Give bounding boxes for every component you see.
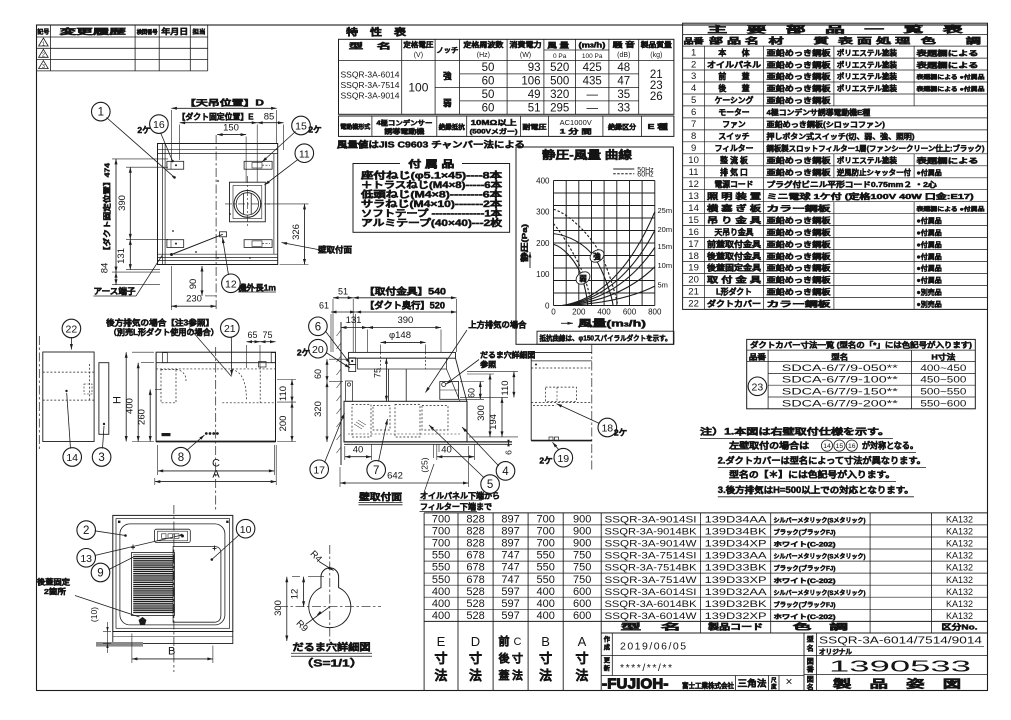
svg-text:2: 2 [83, 525, 89, 537]
svg-text:700: 700 [537, 538, 555, 550]
svg-text:51: 51 [528, 103, 541, 115]
svg-text:（S=1/1）: （S=1/1） [300, 657, 364, 670]
balloon 12 [222, 274, 241, 293]
svg-text:597: 597 [501, 610, 519, 622]
balloon 5 [481, 475, 500, 494]
svg-text:33: 33 [617, 103, 630, 115]
svg-text:(25): (25) [420, 457, 430, 472]
svg-text:8: 8 [178, 452, 184, 464]
front centerline [215, 347, 217, 512]
svg-text:亜鉛めっき鋼板: 亜鉛めっき鋼板 [767, 84, 832, 93]
duct throat [387, 369, 389, 401]
chart note [537, 331, 674, 344]
svg-text:E: E [437, 634, 446, 649]
exhaust duct adapter [230, 182, 266, 222]
svg-text:435: 435 [583, 76, 602, 88]
svg-text:図: 図 [807, 675, 814, 684]
svg-text:だるま穴詳細図: だるま穴詳細図 [480, 350, 536, 360]
svg-text:誘導電動機: 誘導電動機 [384, 127, 425, 136]
svg-text:表題欄による: 表題欄による [915, 48, 978, 57]
parts row 16 天吊り金具 [683, 237, 988, 239]
svg-text:678: 678 [466, 562, 484, 574]
svg-text:定格電圧: 定格電圧 [403, 40, 433, 49]
svg-text:SSQR-3A-6014BK: SSQR-3A-6014BK [605, 599, 698, 609]
dim 110 right [467, 371, 518, 373]
svg-text:SSQR-3A-9014W: SSQR-3A-9014W [605, 539, 697, 549]
svg-text:●別売品: ●別売品 [917, 288, 942, 297]
svg-text:法: 法 [469, 668, 482, 683]
balloon 1 [92, 102, 111, 121]
dim 150 [217, 134, 246, 136]
svg-text:三角法: 三角法 [738, 678, 767, 689]
svg-text:新: 新 [604, 665, 611, 673]
svg-text:ホワイト(C-202): ホワイト(C-202) [774, 578, 836, 585]
svg-text:照 明 装 置: 照 明 装 置 [707, 191, 761, 201]
dim 390 [126, 166, 168, 168]
svg-text:3.後方排気はH=500以上での対応となります。: 3.後方排気はH=500以上での対応となります。 [718, 484, 914, 495]
svg-text:法: 法 [512, 668, 523, 682]
hanger bracket top left [167, 161, 184, 169]
rear view feet [549, 437, 553, 441]
svg-text:93: 93 [528, 62, 541, 74]
svg-text:550: 550 [537, 550, 555, 562]
svg-text:15: 15 [295, 121, 307, 133]
balloon 19 [554, 448, 573, 467]
svg-text:変更履歴: 変更履歴 [60, 26, 127, 36]
svg-text:強: 強 [443, 71, 452, 81]
svg-text:1: 1 [98, 107, 104, 119]
svg-text:KA132: KA132 [946, 539, 973, 549]
svg-text:ソフトテープ --------------1本: ソフトテープ --------------1本 [361, 207, 503, 218]
svg-text:後蓋取付金具: 後蓋取付金具 [707, 251, 761, 261]
svg-text:40: 40 [353, 444, 364, 455]
duct cover size table [747, 339, 976, 408]
svg-text:0: 0 [551, 308, 556, 317]
svg-text:4極コンデンサ誘導電動機E種: 4極コンデンサ誘導電動機E種 [767, 108, 871, 117]
balloon 17 [310, 460, 329, 479]
svg-text:尺: 尺 [771, 676, 777, 684]
svg-text:320: 320 [313, 401, 324, 417]
svg-text:シルバーメタリック(Sメタリック): シルバーメタリック(Sメタリック) [774, 589, 866, 597]
parts row 10 整 流 板 [683, 165, 988, 167]
svg-text:50: 50 [482, 89, 495, 101]
svg-text:前 蓋: 前 蓋 [718, 71, 749, 81]
balloon 18 [598, 418, 617, 437]
svg-text:400: 400 [537, 598, 555, 610]
svg-text:騒 音: 騒 音 [611, 40, 634, 49]
svg-text:390: 390 [397, 315, 413, 326]
balloon 23 [748, 377, 767, 396]
svg-text:21: 21 [224, 323, 236, 335]
svg-text:主 要 部 品 一 覧 表: 主 要 部 品 一 覧 表 [708, 23, 965, 34]
svg-text:後蓋固定金具: 後蓋固定金具 [707, 263, 761, 273]
svg-text:1 分 間: 1 分 間 [560, 127, 593, 136]
svg-text:B: B [541, 634, 550, 649]
switch box [155, 529, 191, 542]
svg-text:400: 400 [125, 398, 136, 414]
svg-text:SSQR-3A-9014: SSQR-3A-9014 [341, 92, 400, 101]
svg-text:(dB): (dB) [617, 52, 630, 59]
svg-text:750: 750 [573, 574, 591, 586]
parts row 15 吊 り 金 具 [683, 225, 988, 227]
svg-text:ケーシング: ケーシング [715, 95, 754, 105]
dim 260 [155, 388, 161, 390]
svg-text:亜鉛めっき鋼板: 亜鉛めっき鋼板 [767, 264, 832, 273]
svg-text:14: 14 [823, 443, 831, 450]
dim phi148 [380, 345, 382, 353]
svg-text:22: 22 [66, 324, 78, 336]
svg-text:機外長1m: 機外長1m [238, 283, 276, 293]
svg-text:後: 後 [499, 651, 511, 665]
svg-text:61: 61 [319, 301, 329, 311]
svg-text:900: 900 [573, 514, 591, 526]
svg-text:【天吊位置】D: 【天吊位置】D [184, 97, 264, 107]
svg-text:SSQR-3A-7514: SSQR-3A-7514 [341, 81, 400, 90]
dim 40 right [436, 444, 438, 460]
svg-text:表題欄による: 表題欄による [915, 156, 978, 165]
svg-text:15: 15 [836, 443, 844, 450]
svg-text:828: 828 [466, 526, 484, 538]
parts row 6 モーター [683, 117, 988, 119]
fan curve weak 50Hz [554, 244, 588, 305]
rear bracket keyhole plate [440, 382, 459, 400]
svg-text:400: 400 [432, 598, 450, 610]
svg-text:製品質量: 製品質量 [640, 40, 672, 49]
slanted front panel [456, 358, 467, 401]
svg-text:●付属品: ●付属品 [917, 240, 942, 249]
svg-text:110: 110 [278, 386, 289, 401]
balloon 21 [221, 319, 240, 338]
svg-text:106: 106 [521, 76, 540, 88]
svg-text:●付属品: ●付属品 [917, 216, 942, 225]
parts row 20 取 付 金 具 [683, 285, 988, 287]
svg-text:KA132: KA132 [946, 563, 973, 573]
svg-text:KA132: KA132 [946, 587, 973, 597]
svg-text:鋼板製スロットフィルター1層(ファンシークリーン仕上:ブラッ: 鋼板製スロットフィルター1層(ファンシークリーン仕上:ブラック) [765, 144, 985, 153]
svg-text:製品コード: 製品コード [707, 621, 763, 631]
svg-text:亜鉛めっき鋼板: 亜鉛めっき鋼板 [767, 48, 832, 57]
svg-text:検図番号: 検図番号 [137, 28, 158, 36]
parts row 11 排 気 口 [683, 177, 988, 179]
svg-text:天吊り金具: 天吊り金具 [715, 227, 754, 237]
svg-text:2.ダクトカバーは型名によって寸法が異なります。: 2.ダクトカバーは型名によって寸法が異なります。 [718, 455, 926, 466]
balloon 15 [292, 116, 311, 135]
svg-text:4極コンデンサー: 4極コンデンサー [376, 118, 432, 127]
svg-text:828: 828 [466, 514, 484, 526]
svg-text:SDCA-6/7/9-100**: SDCA-6/7/9-100** [782, 375, 899, 385]
dim B [131, 634, 133, 664]
svg-text:整 流 板: 整 流 板 [720, 155, 748, 165]
svg-text:特 性 表: 特 性 表 [346, 27, 407, 39]
svg-text:弱: 弱 [579, 273, 587, 283]
svg-text:電動機形式: 電動機形式 [340, 123, 371, 131]
svg-text:22: 22 [688, 299, 699, 310]
svg-text:亜鉛めっき鋼板: 亜鉛めっき鋼板 [767, 288, 832, 297]
svg-text:75: 75 [372, 368, 382, 378]
svg-text:抵抗曲線は、φ150スパイラルダクトを示す。: 抵抗曲線は、φ150スパイラルダクトを示す。 [540, 333, 672, 342]
svg-text:500: 500 [550, 76, 569, 88]
balloon 6 [309, 317, 328, 336]
svg-text:11: 11 [689, 167, 699, 178]
filter [132, 553, 175, 616]
svg-text:16: 16 [153, 119, 165, 131]
svg-text:カラー鋼板: カラー鋼板 [767, 204, 832, 213]
svg-text:(V): (V) [414, 52, 423, 59]
svg-text:47: 47 [617, 76, 630, 88]
svg-text:名: 名 [807, 683, 814, 692]
duct damper [243, 194, 245, 215]
svg-text:10MΩ以上: 10MΩ以上 [471, 118, 517, 127]
svg-text:アルミテープ(40×40)---2枚: アルミテープ(40×40)---2枚 [361, 217, 503, 228]
svg-text:KA132: KA132 [946, 599, 973, 609]
svg-text:吊 り 金 具: 吊 り 金 具 [707, 215, 761, 225]
svg-text:18: 18 [688, 251, 699, 262]
svg-text:8: 8 [691, 131, 696, 142]
svg-text:横 塞 ぎ 板: 横 塞 ぎ 板 [707, 203, 761, 213]
svg-text:597: 597 [501, 598, 519, 610]
svg-text:326: 326 [291, 224, 302, 240]
balloon 2 [77, 521, 96, 540]
revision triangle 1 [39, 38, 49, 46]
svg-text:200: 200 [278, 416, 289, 432]
svg-text:耐電圧: 耐電圧 [523, 122, 548, 131]
svg-text:139D33BK: 139D33BK [705, 563, 768, 573]
svg-text:後蓋固定: 後蓋固定 [37, 576, 71, 586]
svg-text:150: 150 [223, 123, 239, 134]
bottom view centerline [173, 505, 175, 672]
svg-text:ホワイト(C-202): ホワイト(C-202) [774, 542, 836, 549]
svg-text:SSQR-3A-7514SI: SSQR-3A-7514SI [605, 551, 697, 561]
svg-text:富士工業株式会社: 富士工業株式会社 [682, 681, 734, 690]
svg-text:押しボタン式スイッチ(切、弱、強、照明): 押しボタン式スイッチ(切、弱、強、照明) [767, 132, 916, 141]
svg-text:3: 3 [42, 64, 45, 70]
balloon 14 [63, 448, 82, 467]
svg-text:6: 6 [691, 107, 696, 118]
svg-text:550: 550 [432, 562, 450, 574]
svg-text:●付属品: ●付属品 [917, 252, 942, 261]
svg-text:後 蓋: 後 蓋 [718, 83, 749, 93]
svg-text:17: 17 [313, 464, 325, 476]
svg-text:SSQR-3A-6014: SSQR-3A-6014 [341, 71, 400, 80]
svg-text:壁取付面: 壁取付面 [318, 245, 352, 255]
dim 326 [267, 203, 309, 205]
svg-text:●付属品: ●付属品 [917, 228, 942, 237]
svg-text:9: 9 [97, 568, 103, 580]
svg-text:23: 23 [752, 381, 764, 393]
svg-text:139D32BK: 139D32BK [705, 599, 768, 609]
balloon 11 [295, 144, 314, 163]
svg-text:取 付 金 具: 取 付 金 具 [707, 275, 761, 285]
svg-text:寸: 寸 [469, 651, 482, 666]
side view body [344, 401, 467, 442]
svg-text:****/**/**: ****/**/** [620, 662, 674, 674]
svg-text:18: 18 [601, 423, 613, 435]
svg-text:300: 300 [273, 600, 284, 616]
revision triangle 2 [39, 49, 49, 57]
svg-text:ファン: ファン [722, 120, 746, 129]
parts row 5 ケーシング [683, 105, 988, 107]
svg-text:表 面 処 理: 表 面 処 理 [836, 36, 910, 46]
svg-text:60: 60 [482, 103, 495, 115]
svg-text:600: 600 [573, 598, 591, 610]
front view body [156, 352, 275, 441]
svg-text:21: 21 [688, 287, 699, 298]
svg-text:SSQR-3A-9014SI: SSQR-3A-9014SI [605, 515, 697, 525]
keyhole centerlines [279, 606, 381, 608]
svg-text:597: 597 [501, 586, 519, 598]
svg-text:900: 900 [573, 526, 591, 538]
parts row 3 前 蓋 [683, 81, 988, 83]
svg-text:シルバーメタリック(Sメタリック): シルバーメタリック(Sメタリック) [774, 517, 866, 525]
svg-text:15m: 15m [658, 242, 673, 251]
projection method cell [734, 676, 736, 691]
svg-text:型 名: 型 名 [621, 621, 681, 631]
svg-text:678: 678 [466, 574, 484, 586]
dim 230 [170, 266, 172, 310]
svg-text:B: B [168, 645, 175, 657]
dim 642 [339, 467, 341, 487]
parts row 7 ファン [683, 129, 988, 131]
svg-text:ミニ電球 1ケ付 (定格100V 40W 口金:E17): ミニ電球 1ケ付 (定格100V 40W 口金:E17) [767, 192, 975, 201]
svg-text:678: 678 [466, 550, 484, 562]
svg-text:5: 5 [487, 479, 493, 491]
svg-text:亜鉛めっき鋼板: 亜鉛めっき鋼板 [767, 252, 832, 261]
balloon 20 [309, 339, 328, 358]
svg-text:139D32XP: 139D32XP [705, 611, 767, 621]
svg-text:が対称となる。: が対称となる。 [862, 440, 918, 451]
dim A [154, 478, 156, 485]
svg-text:48: 48 [617, 62, 630, 74]
svg-text:295: 295 [550, 103, 569, 115]
svg-text:131: 131 [116, 248, 127, 264]
svg-text:5: 5 [691, 95, 696, 106]
svg-text:747: 747 [501, 550, 519, 562]
svg-text:SDCA-6/7/9-150**: SDCA-6/7/9-150** [782, 387, 899, 397]
svg-text:ポリエステル塗装: ポリエステル塗装 [837, 84, 898, 93]
svg-text:300: 300 [476, 405, 487, 421]
svg-text:亜鉛めっき鋼板: 亜鉛めっき鋼板 [767, 228, 832, 237]
dim 131 390 side [367, 330, 369, 353]
plan centerline [215, 135, 217, 310]
svg-text:2: 2 [42, 53, 45, 59]
svg-text:400: 400 [432, 586, 450, 598]
parts row 2 オイルパネル [683, 69, 988, 71]
svg-text:座付ねじ(φ5.1×45)----8本: 座付ねじ(φ5.1×45)----8本 [360, 170, 504, 181]
svg-text:1390533: 1390533 [829, 658, 971, 675]
svg-text:亜鉛めっき鋼板: 亜鉛めっき鋼板 [767, 60, 832, 69]
svg-text:2019/06/05: 2019/06/05 [620, 641, 688, 653]
accessories box [353, 164, 510, 233]
svg-text:6: 6 [504, 450, 514, 455]
svg-text:寸: 寸 [539, 651, 552, 666]
svg-text:60Hz: 60Hz [637, 172, 654, 179]
svg-text:スイッチ: スイッチ [718, 132, 749, 141]
dim 320 left [326, 382, 328, 442]
keyhole hole outline [309, 568, 351, 628]
svg-text:10: 10 [688, 155, 699, 166]
balloon 3 [92, 448, 111, 467]
svg-text:2ケ: 2ケ [539, 456, 552, 466]
svg-text:寸: 寸 [575, 651, 588, 666]
svg-text:●別売品: ●別売品 [917, 300, 942, 309]
svg-text:110: 110 [500, 380, 511, 395]
svg-text:ポリエステル塗装: ポリエステル塗装 [837, 72, 898, 81]
dim 194 right [460, 396, 508, 398]
svg-text:7: 7 [691, 119, 696, 130]
svg-text:更: 更 [604, 657, 611, 665]
svg-text:550~600: 550~600 [920, 398, 966, 408]
svg-text:2ケ: 2ケ [137, 125, 150, 135]
switch dots [205, 432, 208, 435]
svg-text:型名: 型名 [831, 351, 848, 361]
svg-text:19: 19 [557, 453, 569, 465]
svg-text:表題欄による ●付属品: 表題欄による ●付属品 [917, 73, 985, 81]
svg-text:700: 700 [432, 526, 450, 538]
x axis label [561, 322, 573, 324]
svg-text:0 Pa: 0 Pa [553, 53, 567, 60]
parts row 9 フィルター [683, 153, 988, 155]
svg-text:528: 528 [466, 598, 484, 610]
dim H [132, 351, 154, 353]
exhaust duct collar [234, 191, 261, 218]
svg-text:4: 4 [691, 83, 696, 94]
chart grid [553, 181, 555, 306]
svg-text:400~450: 400~450 [920, 363, 966, 373]
svg-text:L形ダクト: L形ダクト [716, 287, 752, 297]
parts row 12 電源コード [683, 189, 988, 191]
dim 131 [129, 239, 131, 269]
svg-text:法: 法 [575, 668, 588, 683]
svg-text:ポリエステル塗装: ポリエステル塗装 [837, 156, 898, 165]
svg-text:絶縁抵抗: 絶縁抵抗 [439, 122, 466, 131]
svg-text:20m: 20m [658, 225, 673, 234]
svg-text:風量値はJIS C9603 チャンバー法による: 風量値はJIS C9603 チャンバー法による [337, 140, 525, 150]
dim C [157, 445, 159, 475]
hanger bracket bottom right [244, 240, 272, 248]
svg-text:600: 600 [573, 610, 591, 622]
svg-text:139D32AA: 139D32AA [705, 587, 768, 597]
svg-text:品番: 品番 [749, 351, 767, 361]
dim 60 left [329, 358, 346, 360]
svg-text:60: 60 [467, 388, 477, 398]
svg-text:蓋: 蓋 [499, 668, 510, 682]
parts row 21 L形ダクト [683, 296, 988, 298]
corner screws [118, 521, 120, 523]
dim 61 520 [330, 314, 332, 352]
svg-text:後方排気の場合【注3参照】: 後方排気の場合【注3参照】 [106, 317, 214, 327]
svg-text:材 質: 材 質 [769, 36, 829, 46]
svg-text:139D34XP: 139D34XP [705, 539, 767, 549]
svg-text:×: × [785, 675, 792, 689]
svg-text:828: 828 [466, 538, 484, 550]
svg-text:12: 12 [688, 179, 699, 190]
svg-text:前蓋取付金具: 前蓋取付金具 [707, 239, 761, 249]
svg-text:弱: 弱 [443, 98, 452, 108]
svg-text:ブラック(ブラックFJ): ブラック(ブラックFJ) [774, 529, 836, 537]
svg-text:D: D [471, 634, 480, 649]
svg-text:亜鉛めっき鋼板(シロッコファン): 亜鉛めっき鋼板(シロッコファン) [767, 120, 886, 129]
svg-text:3: 3 [98, 452, 104, 464]
dim 300 right [467, 373, 494, 375]
svg-text:●付属品: ●付属品 [917, 168, 942, 177]
svg-text:品番: 品番 [684, 36, 705, 46]
front view inner dashed details [161, 369, 176, 402]
svg-text:84: 84 [100, 263, 111, 274]
svg-text:2ケ: 2ケ [308, 125, 321, 135]
svg-text:参照: 参照 [480, 359, 497, 369]
svg-text:担当: 担当 [193, 28, 206, 36]
svg-text:300: 300 [536, 208, 550, 217]
